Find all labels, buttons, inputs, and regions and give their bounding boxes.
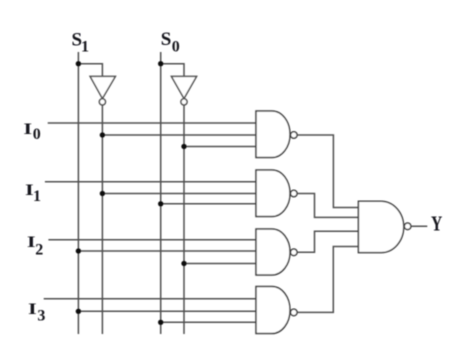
- wire S1 to inverter U1: [78, 64, 102, 77]
- wire S0 to G2: [161, 203, 256, 205]
- wire S1-bar to G1: [102, 134, 256, 136]
- inverter U1: [90, 76, 115, 105]
- wire S1 to G4: [78, 310, 256, 312]
- junction dot S1 G3: [76, 248, 81, 253]
- svg-text:2: 2: [35, 242, 43, 259]
- wire I0 line: [48, 122, 256, 124]
- svg-text:1: 1: [33, 188, 41, 205]
- wire S0 to inverter U2: [161, 64, 184, 77]
- junction dot S0 G2: [158, 201, 163, 206]
- junction dot S0-bar G1: [181, 144, 186, 149]
- label S1: [72, 30, 90, 56]
- junction dot S0-bar G3: [181, 261, 186, 266]
- wire I2 line: [48, 239, 256, 241]
- junction dot S1-bar G1: [100, 132, 105, 137]
- nand gate G2: [256, 170, 297, 217]
- svg-text:0: 0: [172, 39, 180, 56]
- wire S0 vertical: [160, 52, 162, 334]
- nand gate G1: [256, 111, 297, 158]
- wire S1-bar vertical: [101, 105, 103, 334]
- svg-text:1: 1: [81, 39, 89, 56]
- label I1: [25, 182, 41, 205]
- svg-text:0: 0: [33, 126, 41, 143]
- svg-text:3: 3: [37, 307, 45, 324]
- wire S0-bar to G1: [184, 146, 256, 148]
- wire S1 vertical: [77, 52, 79, 334]
- wire G1 output to G5 input 1: [297, 135, 358, 208]
- wire S0 to G4: [161, 321, 256, 323]
- svg-text:S: S: [161, 29, 172, 50]
- wire G3 output to G5 input 3: [297, 231, 358, 252]
- label S0: [161, 29, 180, 55]
- wire Y output: [411, 225, 427, 227]
- svg-text:Y: Y: [431, 212, 442, 236]
- wire G4 output to G5 input 4: [297, 247, 358, 313]
- wire S0-bar to G3: [184, 263, 256, 265]
- svg-text:I: I: [28, 301, 37, 318]
- wire I3 line: [44, 298, 256, 300]
- wire S1-bar to G2: [102, 193, 256, 195]
- label I0: [24, 121, 41, 143]
- wire S0-bar vertical: [183, 105, 185, 334]
- wire G2 output to G5 input 2: [297, 194, 358, 218]
- nand gate G3: [256, 229, 297, 275]
- junction dot S0 G4: [158, 320, 163, 325]
- svg-text:I: I: [27, 234, 36, 251]
- label I3: [28, 301, 45, 324]
- wire I1 line: [45, 181, 256, 183]
- junction dot S1-bar G2: [100, 191, 105, 196]
- junction dot S1 branch: [76, 61, 81, 66]
- nand gate G4: [256, 287, 297, 334]
- junction dot S0 branch: [158, 61, 163, 66]
- nand gate G5: [358, 201, 411, 252]
- junction dot S1 G4: [76, 309, 81, 314]
- inverter U2: [171, 76, 196, 105]
- wire S1 to G3: [78, 250, 256, 252]
- svg-text:I: I: [24, 121, 33, 138]
- label I2: [27, 234, 43, 258]
